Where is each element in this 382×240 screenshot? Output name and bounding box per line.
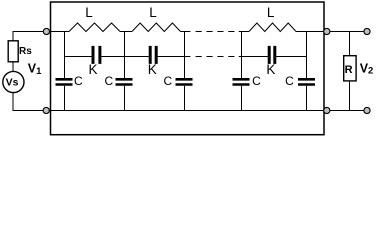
svg-text:L: L — [85, 5, 93, 20]
capacitor C5 — [298, 79, 315, 84]
wire: top wire between L1 and L2 — [120, 31, 132, 33]
svg-text:R: R — [345, 64, 353, 76]
svg-text:K: K — [88, 62, 97, 77]
wire: K row from dashed break through node D to K3 — [239, 56, 268, 58]
source Vs lead lower — [12, 93, 14, 111]
terminal dot open output top — [364, 28, 370, 34]
svg-text:Vs: Vs — [6, 76, 19, 88]
terminal dot output box top — [324, 28, 330, 34]
node C vertical wire upper — [184, 32, 186, 79]
svg-text:C: C — [104, 74, 113, 88]
svg-text:K: K — [266, 62, 275, 77]
capacitor C4 — [233, 79, 250, 84]
terminal dot open output bottom — [364, 107, 370, 113]
svg-text:C: C — [163, 74, 172, 88]
svg-text:L: L — [267, 5, 275, 20]
wire: top wire solid stub after L2 — [181, 31, 191, 33]
wire: top dashed continuation wire — [196, 31, 235, 33]
capacitor C3 — [176, 79, 193, 84]
svg-text:C: C — [252, 74, 261, 88]
capacitor C2 — [116, 79, 133, 84]
wire: K row from node A to K1 — [65, 56, 92, 58]
svg-text:L: L — [149, 5, 157, 20]
node E vertical wire lower — [306, 86, 308, 111]
capacitor K2 — [150, 46, 156, 64]
wire: top input wire from Rs to left terminal — [13, 32, 51, 41]
node A vertical wire upper — [64, 32, 66, 79]
resistor R lead upper — [349, 32, 351, 56]
node C vertical wire lower — [184, 86, 186, 111]
source Vs — [3, 71, 24, 92]
inductor L2 — [132, 23, 181, 32]
resistor Rs lead lower — [12, 62, 14, 72]
resistor Rs lead upper — [12, 32, 14, 41]
node E vertical wire upper — [306, 32, 308, 79]
resistor R — [344, 56, 356, 81]
svg-text:K: K — [148, 62, 157, 77]
wire: K row dashed continuation — [196, 56, 235, 58]
capacitor K3 — [269, 46, 275, 64]
svg-text:C: C — [74, 74, 83, 88]
terminal dot input top — [43, 28, 49, 34]
resistor Rs — [8, 41, 18, 62]
capacitor K1 — [93, 46, 100, 64]
node D vertical wire lower — [241, 86, 243, 111]
terminal dot input bottom — [43, 107, 49, 113]
wire: bottom ground rail — [13, 110, 364, 112]
wire: K row from K3 to node E — [276, 56, 306, 58]
inductor L1 — [69, 23, 120, 32]
wire: top wire solid stub before L3 — [239, 31, 249, 33]
wire: K row from K2 to dashed break — [158, 56, 191, 58]
node B vertical wire upper — [124, 32, 126, 79]
wire: top wire from L3 to output terminal — [296, 31, 364, 33]
wire: top wire from box edge to L1 — [51, 31, 70, 33]
node A vertical wire lower — [64, 86, 66, 111]
capacitor C1 — [56, 79, 73, 84]
terminal dot output box bottom — [324, 107, 330, 113]
wire: K row from K1 through node B to K2 — [101, 56, 149, 58]
resistor R lead lower — [349, 81, 351, 111]
inductor L3 — [249, 23, 296, 32]
svg-text:C: C — [285, 74, 294, 88]
node B vertical wire lower — [124, 86, 126, 111]
enclosure box around filter network — [51, 2, 325, 135]
node D vertical wire upper — [241, 32, 243, 79]
svg-text:Rs: Rs — [19, 46, 32, 57]
